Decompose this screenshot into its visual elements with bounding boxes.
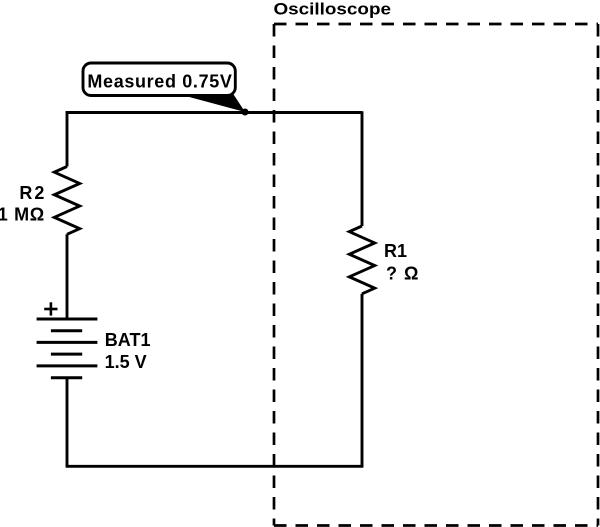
- wire: right wire from bottom up to R1: [361, 294, 364, 468]
- battery BAT1 plus sign: [44, 302, 57, 315]
- wire: left wire from R2 to battery: [66, 234, 69, 319]
- wire: top wire from R2 branch to R1 branch: [66, 111, 362, 114]
- battery BAT1: [37, 319, 98, 378]
- label BAT1 value: [105, 330, 151, 372]
- wire: left wire top segment (top wire down to R2): [66, 111, 69, 166]
- svg-text:1 MΩ: 1 MΩ: [0, 204, 44, 224]
- callout pointer triangle: [180, 94, 246, 112]
- svg-text:? Ω: ? Ω: [386, 264, 418, 284]
- resistor R1: [349, 226, 374, 294]
- wire: battery bottom stub down to bottom wire: [66, 378, 69, 468]
- svg-text:Oscilloscope: Oscilloscope: [274, 0, 392, 18]
- resistor R2: [54, 167, 79, 235]
- wire: right wire from R1 up to top wire: [361, 111, 364, 226]
- wire: bottom wire: [66, 465, 364, 468]
- svg-text:Measured 0.75V: Measured 0.75V: [87, 72, 232, 92]
- callout balloon "Measured 0.75V": [83, 63, 235, 96]
- oscilloscope enclosure label: [274, 0, 392, 18]
- label R1 value: [384, 241, 418, 284]
- label R2 value: [0, 183, 44, 225]
- node A: measured node dot: [242, 109, 249, 116]
- svg-text:R1: R1: [384, 241, 407, 261]
- svg-text:1.5 V: 1.5 V: [105, 352, 147, 372]
- oscilloscope enclosure dashed box: [274, 24, 598, 526]
- svg-text:BAT1: BAT1: [105, 330, 151, 350]
- svg-text:R2: R2: [19, 183, 44, 203]
